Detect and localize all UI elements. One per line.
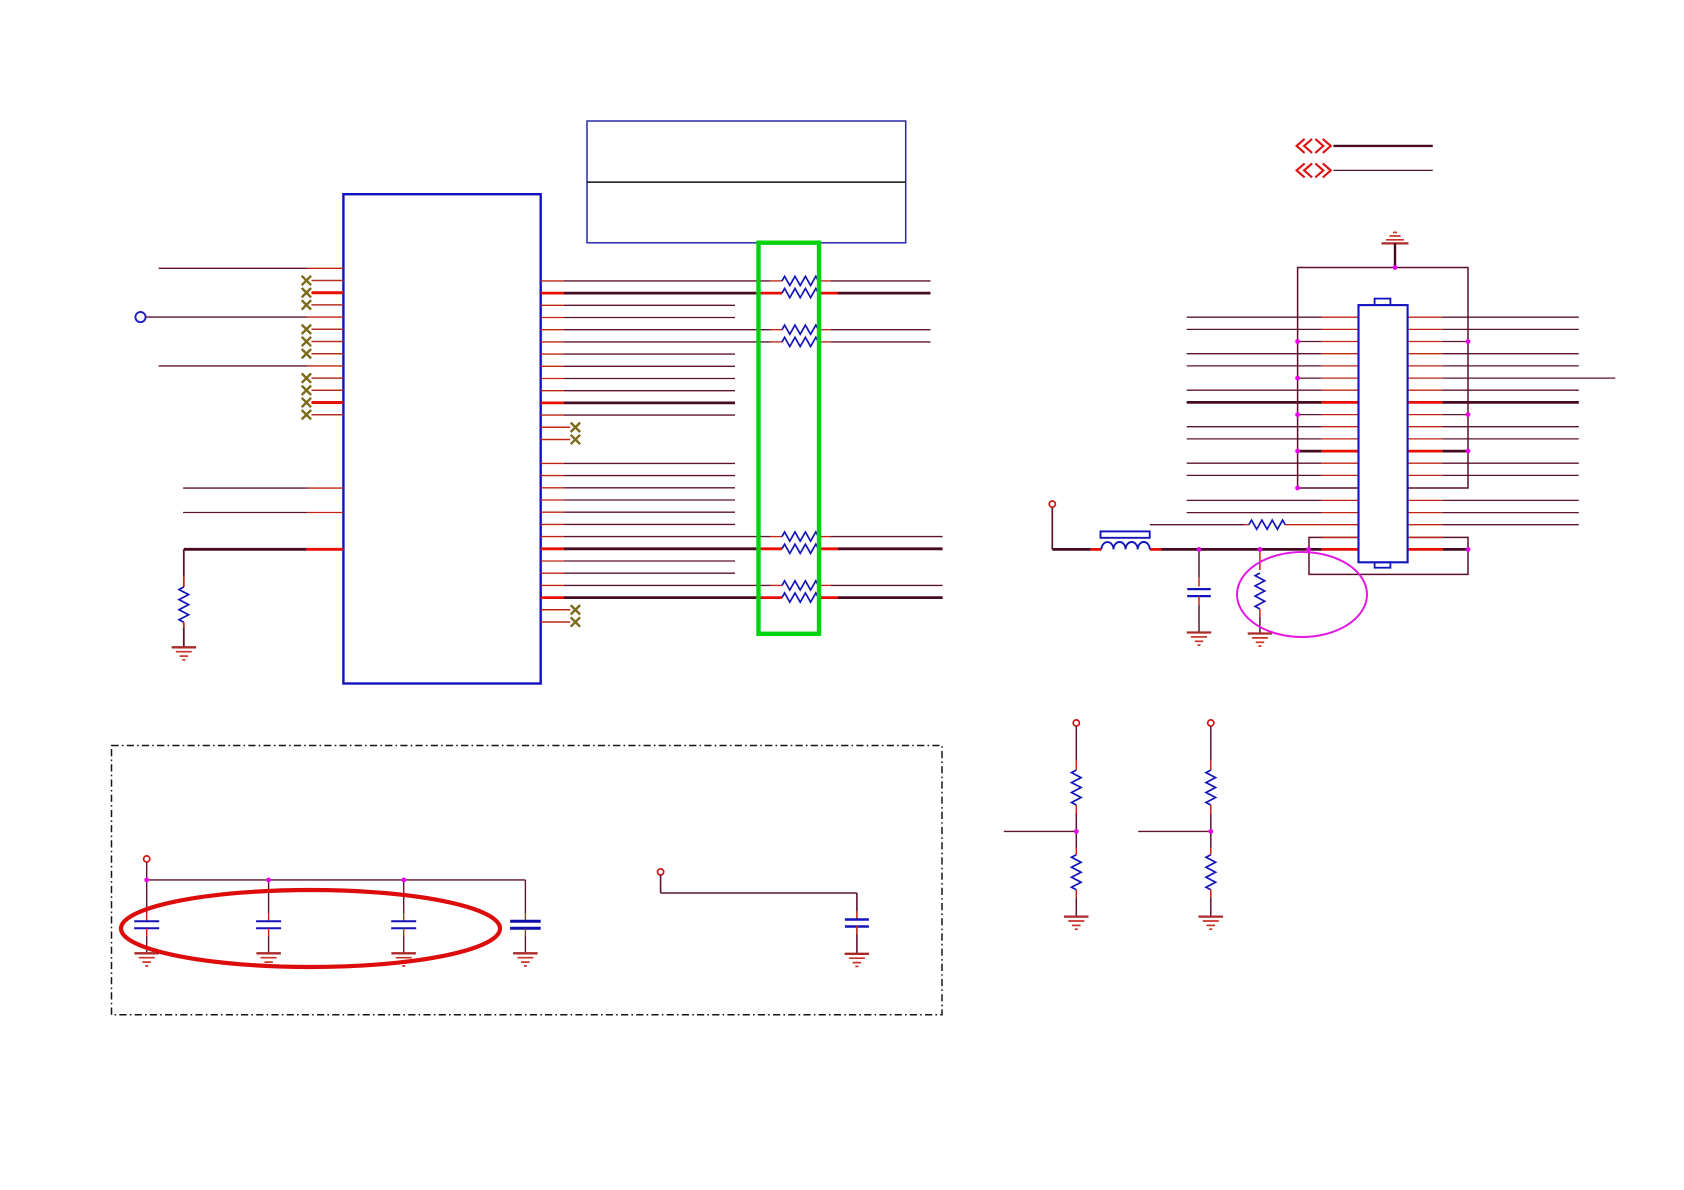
wire (541, 414, 564, 416)
wire (541, 572, 564, 574)
junction (1295, 376, 1300, 381)
no-connect pin stub (312, 280, 344, 282)
junction (1466, 339, 1471, 344)
no-connect pin stub (312, 389, 344, 391)
terminal (blue circle) with wire (135, 312, 145, 322)
no-connect pin stub (thick) (312, 291, 344, 294)
terminal (power input) (1049, 501, 1055, 507)
dash-dot border box (112, 746, 943, 1015)
wire (connector pin) (1187, 316, 1322, 318)
wire (lower left) (183, 487, 307, 489)
green highlight box (759, 243, 820, 634)
wire (connector pin, thick boxed) (1298, 450, 1322, 453)
resistor R3 (vertical) (1259, 549, 1261, 570)
capacitor C6 with ground (856, 911, 858, 919)
wire (541, 304, 564, 306)
no-connect pin stub (541, 609, 571, 611)
ground (1187, 631, 1211, 633)
resistor (in green box) (782, 544, 818, 553)
no-connect pin stub (541, 439, 571, 441)
junction (1197, 547, 1202, 552)
no-connect pin stub (312, 353, 344, 355)
wire (connector pin, thick) (1187, 401, 1322, 404)
capacitor C4 with ground (thick) (524, 880, 526, 913)
resistor R2 (series) (1249, 520, 1285, 529)
small box (lower connector group) (1309, 537, 1468, 574)
wire (541, 499, 564, 501)
resistor (in green box) (782, 581, 818, 590)
terminal (supply) (144, 856, 150, 862)
resistor (in green box) (782, 532, 818, 541)
wire (541, 378, 564, 380)
ground (1248, 632, 1273, 634)
wire through resistor (541, 341, 564, 343)
wire (1333, 169, 1432, 171)
wire through resistor (541, 280, 564, 282)
magenta highlight ellipse (1237, 552, 1367, 637)
wire (541, 523, 564, 525)
wire (661, 892, 857, 894)
wire (bus, thick) (1333, 145, 1432, 147)
junction (1393, 265, 1398, 270)
no-connect pin stub (541, 426, 571, 428)
wire (connector pin) (1187, 438, 1322, 440)
capacitor C3 with ground (403, 880, 405, 913)
connector J1 (vertical) (1359, 305, 1408, 562)
wire (541, 317, 564, 319)
no-connect pin stub (312, 328, 344, 330)
outer box (connector group) (1298, 268, 1468, 489)
wire through resistor (thick) (541, 547, 564, 550)
note box divider (587, 181, 906, 183)
wire (connector pin, boxed) (1298, 414, 1322, 416)
ground (inverted, above connector box) (1382, 242, 1409, 244)
resistor divider (R6/R7) (1073, 720, 1079, 726)
junction (1258, 547, 1263, 552)
off-page connector symbol (1297, 139, 1305, 153)
wire (connector pin) (1187, 328, 1322, 330)
no-connect pin stub (541, 621, 571, 623)
inductor L1 (1101, 542, 1149, 549)
junction (401, 878, 406, 883)
resistor (in green box) (782, 325, 818, 334)
no-connect pin stub (thick) (312, 401, 344, 404)
wire (541, 511, 564, 513)
junction (144, 878, 149, 883)
wire (thick, to resistor R1) (184, 548, 306, 551)
no-connect pin stub (312, 341, 344, 343)
wire (small box top pin segs) (1322, 536, 1359, 538)
wire (ground stub) (1394, 243, 1396, 267)
wire (1187, 512, 1322, 514)
wire (connector pin) (1187, 389, 1322, 391)
capacitor C5 (1198, 549, 1200, 577)
resistor (in green box) (782, 593, 818, 602)
wire (connector pin, boxed) (1298, 341, 1322, 343)
wire through resistor (541, 584, 564, 586)
wire (1187, 499, 1322, 501)
junction (1466, 547, 1471, 552)
junction (1295, 412, 1300, 417)
note box (title block) (587, 121, 906, 243)
wire through resistor (541, 536, 564, 538)
resistor (in green box) (782, 276, 818, 285)
wire (541, 462, 564, 464)
junction (1466, 412, 1471, 417)
no-connect pin stub (312, 304, 344, 306)
off-page connector symbol (1297, 163, 1305, 177)
wire (541, 390, 564, 392)
wire (lower left) (183, 512, 307, 514)
resistor (in green box) (782, 289, 818, 298)
capacitor C1 with ground (146, 880, 148, 913)
junction (1466, 449, 1471, 454)
wire (connector pin) (1187, 426, 1322, 428)
junction (1295, 486, 1300, 491)
wire (thick) (541, 401, 564, 404)
wire with series resistor (1150, 524, 1245, 526)
wire (connector pin) (1187, 462, 1322, 464)
wire through resistor (541, 329, 564, 331)
wire (cap rail) (147, 879, 526, 881)
ground (172, 646, 197, 648)
wire through resistor (thick) (541, 596, 564, 599)
junction (1295, 449, 1300, 454)
wire (pin 1 left) (159, 267, 307, 269)
wire (541, 353, 564, 355)
wire (connector pin, long right) (1298, 377, 1322, 379)
resistor R1 (vertical) (183, 549, 185, 576)
wire (connector pin) (1187, 353, 1322, 355)
power wire (thick) (1052, 548, 1090, 551)
IC U1 (left, large) (343, 194, 540, 683)
no-connect pin stub (312, 414, 344, 416)
wire (541, 487, 564, 489)
wire (541, 475, 564, 477)
terminal (supply 2) (658, 869, 664, 875)
junction (1295, 339, 1300, 344)
resistor (in green box) (782, 337, 818, 346)
wire through resistor (thick) (541, 292, 564, 295)
red highlight ellipse (121, 890, 500, 967)
capacitor C2 with ground (268, 880, 270, 913)
wire (541, 560, 564, 562)
junction (266, 878, 271, 883)
wire (connector pin) (1187, 365, 1322, 367)
wire (pin 9 left) (159, 365, 307, 367)
ferrite bead (bar) FB1 (1101, 531, 1150, 537)
resistor divider (R8/R9) (1208, 720, 1214, 726)
junction (1306, 547, 1311, 552)
wire (connector pin) (1187, 474, 1322, 476)
wire (541, 365, 564, 367)
no-connect pin stub (312, 377, 344, 379)
